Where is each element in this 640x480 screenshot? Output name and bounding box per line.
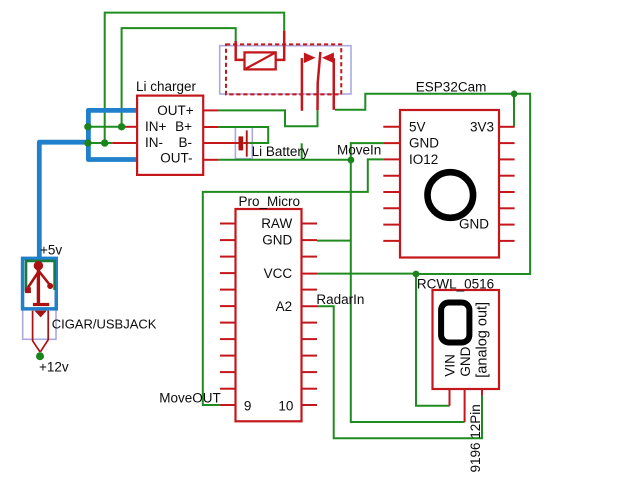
svg-text:[analog out]: [analog out]: [475, 302, 491, 378]
svg-text:VCC: VCC: [264, 266, 293, 281]
svg-text:10: 10: [278, 399, 293, 414]
svg-text:+5v: +5v: [40, 243, 62, 258]
svg-text:Pro_Micro: Pro_Micro: [239, 194, 301, 209]
svg-text:+12v: +12v: [39, 360, 69, 375]
svg-text:GND: GND: [409, 136, 439, 151]
svg-text:GND: GND: [458, 346, 473, 376]
svg-text:IO12: IO12: [409, 152, 438, 167]
svg-text:B+: B+: [175, 119, 192, 134]
svg-text:3V3: 3V3: [470, 119, 494, 134]
svg-text:Li Battery: Li Battery: [252, 144, 309, 159]
svg-text:A2: A2: [276, 299, 293, 314]
svg-text:5V: 5V: [409, 119, 426, 134]
svg-text:9: 9: [244, 399, 252, 414]
svg-text:B-: B-: [179, 135, 193, 150]
svg-text:RCWL_0516: RCWL_0516: [417, 277, 494, 292]
svg-text:IN+: IN+: [145, 119, 167, 134]
svg-text:ESP32Cam: ESP32Cam: [416, 80, 487, 95]
svg-text:9196 12Pin: 9196 12Pin: [468, 404, 483, 472]
svg-text:Li charger: Li charger: [136, 79, 197, 94]
svg-text:RAW: RAW: [261, 216, 292, 231]
svg-text:VIN: VIN: [443, 354, 458, 377]
svg-text:GND: GND: [262, 233, 292, 248]
svg-text:GND: GND: [459, 217, 489, 232]
svg-text:RadarIn: RadarIn: [316, 292, 364, 307]
svg-text:MoveOUT: MoveOUT: [159, 390, 221, 405]
svg-text:OUT+: OUT+: [157, 103, 193, 118]
svg-text:CIGAR/USBJACK: CIGAR/USBJACK: [52, 317, 157, 332]
svg-text:IN-: IN-: [145, 135, 163, 150]
svg-text:OUT-: OUT-: [160, 151, 192, 166]
svg-text:MoveIn: MoveIn: [337, 143, 381, 158]
